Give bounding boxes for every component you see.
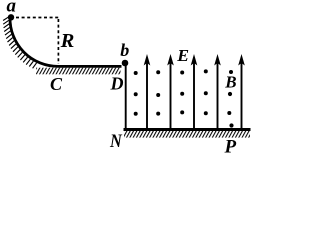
- B dots column 1: [134, 71, 138, 116]
- svg-text:E: E: [176, 46, 189, 65]
- svg-text:a: a: [7, 0, 17, 17]
- B dots column 4: [204, 69, 208, 115]
- track hatch band C-D: [36, 68, 121, 75]
- ground line N-P: [124, 128, 251, 131]
- dashed vertical radius R: [57, 19, 59, 64]
- point a dot: [8, 14, 14, 20]
- svg-text:B: B: [224, 73, 236, 92]
- svg-text:N: N: [109, 131, 123, 152]
- svg-text:P: P: [224, 136, 237, 156]
- ramp curve a-C (quarter circle, center 58,18.5 R 48): [10, 18, 122, 67]
- E field arrow 3: [191, 54, 198, 129]
- E field arrow 5: [238, 54, 245, 129]
- E field arrow 2: [167, 54, 174, 129]
- B dots column 5: [227, 70, 233, 128]
- dashed horizontal a to center: [16, 17, 59, 19]
- svg-text:D: D: [110, 74, 124, 94]
- E field arrow 4: [214, 54, 221, 129]
- B dots column 2: [156, 70, 160, 115]
- svg-text:R: R: [60, 30, 75, 52]
- B dots column 3: [180, 71, 184, 115]
- curve hatch ticks: [3, 17, 37, 69]
- svg-text:b: b: [120, 40, 129, 60]
- point b dot: [122, 60, 129, 67]
- wall D-N: [125, 63, 127, 129]
- E field arrow 1: [144, 54, 151, 129]
- svg-text:C: C: [50, 74, 63, 94]
- ground hatch: [124, 131, 250, 138]
